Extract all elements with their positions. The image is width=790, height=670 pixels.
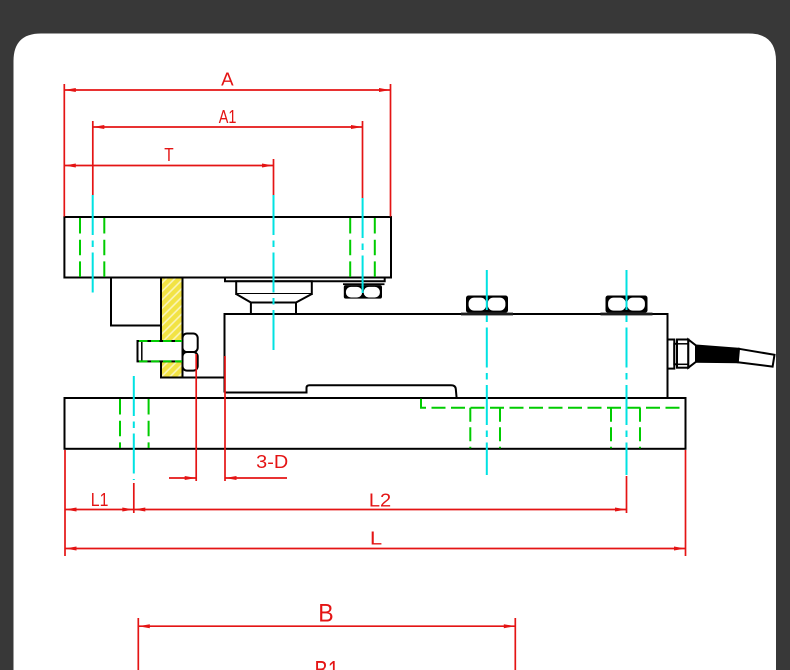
svg-text:T: T: [164, 144, 173, 165]
svg-text:L2: L2: [369, 489, 391, 510]
svg-text:A: A: [221, 69, 234, 90]
svg-text:L1: L1: [91, 489, 109, 510]
svg-text:3-D: 3-D: [256, 451, 288, 472]
svg-text:A1: A1: [219, 106, 237, 127]
svg-text:L: L: [370, 527, 382, 548]
svg-text:B: B: [318, 599, 333, 627]
svg-text:B1: B1: [315, 656, 340, 670]
